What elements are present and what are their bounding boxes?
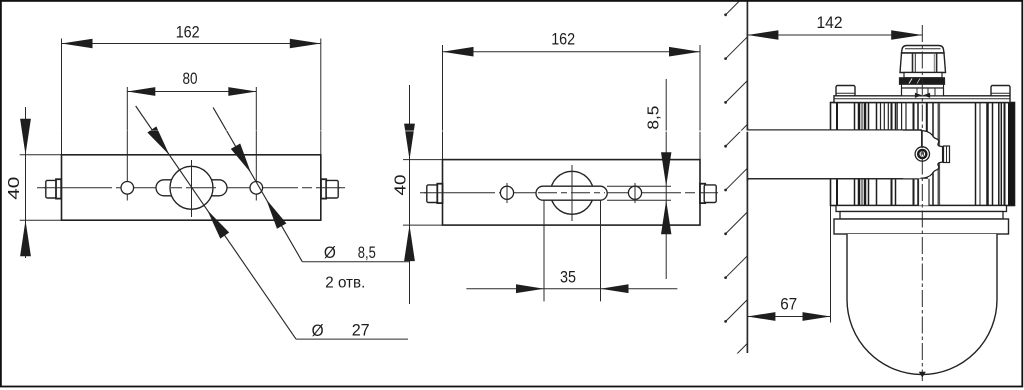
svg-text:40: 40 [392, 174, 409, 195]
svg-text:40: 40 [6, 177, 23, 200]
svg-text:8,5: 8,5 [358, 243, 376, 262]
svg-text:67: 67 [780, 294, 797, 313]
svg-text:Ø: Ø [324, 243, 336, 262]
svg-text:35: 35 [560, 268, 576, 287]
svg-text:142: 142 [817, 13, 843, 32]
svg-text:162: 162 [176, 22, 200, 41]
svg-text:2 отв.: 2 отв. [325, 275, 365, 292]
svg-text:8,5: 8,5 [645, 105, 662, 129]
svg-text:80: 80 [183, 69, 198, 88]
svg-text:Ø: Ø [312, 321, 324, 340]
svg-text:162: 162 [551, 30, 575, 49]
svg-text:27: 27 [352, 321, 370, 340]
